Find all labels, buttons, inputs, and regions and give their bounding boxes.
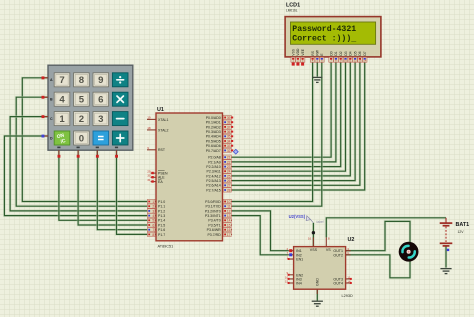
U1 pin 18 XTAL2 bbox=[147, 126, 168, 132]
svg-text:18: 18 bbox=[147, 126, 151, 130]
svg-text:24: 24 bbox=[227, 170, 231, 174]
U1 pin 7 P1.6 bbox=[147, 228, 165, 233]
LCD1 screen text line 1: Password-4321 bbox=[292, 24, 356, 34]
keypad button 9 bbox=[93, 73, 109, 87]
wire U1 P3.3 to U2 IN2 bbox=[232, 216, 289, 255]
keypad pin column 4 bbox=[115, 150, 118, 158]
U1 pin 37 P0.2/AD2 bbox=[206, 125, 233, 130]
svg-text:1: 1 bbox=[59, 114, 65, 125]
transistor-driver U2 body (L293D) bbox=[294, 247, 346, 290]
keypad pin row B bbox=[42, 96, 49, 99]
svg-text:13: 13 bbox=[227, 214, 231, 218]
svg-text:22: 22 bbox=[227, 160, 231, 164]
svg-text:P1.7: P1.7 bbox=[158, 233, 165, 237]
wire U1 P2.7 to LCD D7 bbox=[232, 63, 365, 190]
svg-text:D7: D7 bbox=[363, 51, 367, 55]
svg-text:U2: U2 bbox=[348, 237, 355, 243]
U1 pin 25 P2.4/A12 bbox=[206, 174, 232, 179]
svg-text:11: 11 bbox=[227, 205, 231, 209]
keypad button ON/C bbox=[54, 131, 70, 145]
svg-text:35: 35 bbox=[227, 135, 231, 139]
svg-text:U2(VSS): U2(VSS) bbox=[289, 214, 306, 219]
svg-text:D5: D5 bbox=[353, 51, 357, 55]
svg-text:6: 6 bbox=[152, 223, 154, 227]
U1 value label AT89C51 bbox=[158, 244, 174, 248]
keypad pin row C bbox=[42, 115, 49, 118]
svg-text:D1: D1 bbox=[334, 51, 338, 55]
svg-text:VS: VS bbox=[326, 248, 331, 252]
U1 pin 9 RST bbox=[147, 146, 166, 152]
LCD1 pin 2 VDD bbox=[296, 48, 301, 66]
U2 pin 16 VSS bbox=[308, 237, 318, 252]
svg-text:P3.2/INT0: P3.2/INT0 bbox=[205, 209, 221, 213]
svg-text:P2.2/A10: P2.2/A10 bbox=[206, 165, 220, 169]
svg-text:LM016L: LM016L bbox=[286, 8, 298, 12]
svg-text:D3: D3 bbox=[344, 51, 348, 55]
keypad pin row D bbox=[42, 135, 49, 138]
svg-text:2: 2 bbox=[152, 205, 154, 209]
U1 pin 13 P3.3/INT1 bbox=[205, 213, 232, 218]
svg-text:OUT2: OUT2 bbox=[333, 253, 343, 257]
svg-text:D: D bbox=[50, 136, 53, 140]
svg-text:5: 5 bbox=[152, 219, 154, 223]
U1 pin 30 ALE bbox=[147, 174, 165, 180]
svg-text:P1.2: P1.2 bbox=[158, 209, 165, 213]
svg-text:9: 9 bbox=[98, 75, 103, 86]
svg-text:D6: D6 bbox=[358, 51, 362, 55]
ground below LCD RW bbox=[312, 77, 322, 82]
keypad row label D bbox=[50, 136, 53, 140]
U1 pin 17 P3.7/RD bbox=[207, 232, 232, 237]
keypad row label B bbox=[50, 98, 53, 102]
svg-text:26: 26 bbox=[227, 179, 231, 183]
svg-text:P3.6/WR: P3.6/WR bbox=[207, 228, 221, 232]
U1 pin 2 P1.1 bbox=[147, 204, 165, 209]
svg-text:36: 36 bbox=[227, 130, 231, 134]
U1 pin 24 P2.3/A11 bbox=[207, 169, 232, 174]
svg-text:Password-4321: Password-4321 bbox=[292, 24, 356, 34]
keypad column label 3 bbox=[96, 147, 99, 149]
wire U1 P2.3 to LCD D3 bbox=[232, 63, 346, 172]
U1 pin 15 P3.5/T1 bbox=[208, 223, 232, 228]
svg-text:4: 4 bbox=[59, 95, 65, 106]
svg-text:P3.7/RD: P3.7/RD bbox=[207, 233, 221, 237]
keypad pin column 3 bbox=[96, 150, 99, 158]
ground below BAT1 bbox=[440, 269, 451, 274]
svg-text:17: 17 bbox=[227, 233, 231, 237]
keypad button 2 bbox=[74, 112, 90, 126]
wire U1 P2.2 to LCD D2 bbox=[232, 63, 341, 167]
U1 pin 35 P0.4/AD4 bbox=[206, 134, 233, 139]
svg-text:P2.5/A13: P2.5/A13 bbox=[206, 179, 220, 183]
svg-text:P1.5: P1.5 bbox=[158, 223, 165, 227]
keypad button 5 bbox=[74, 92, 90, 106]
svg-text:31: 31 bbox=[147, 178, 151, 182]
svg-text:C: C bbox=[50, 117, 53, 121]
svg-text:9: 9 bbox=[147, 146, 149, 150]
U1 pin 33 P0.6/AD6 bbox=[206, 144, 233, 149]
keypad button 8 bbox=[74, 73, 90, 87]
svg-text:XTAL1: XTAL1 bbox=[158, 118, 168, 122]
svg-text:25: 25 bbox=[227, 174, 231, 178]
U1 pin 23 P2.2/A10 bbox=[206, 164, 232, 169]
BAT1 reference label bbox=[456, 222, 470, 228]
svg-text:P3.1/TXD: P3.1/TXD bbox=[206, 205, 222, 209]
U1 pin 27 P2.6/A14 bbox=[206, 183, 232, 188]
wire U2 GND to ground bbox=[316, 289, 319, 300]
U1 pin 31 EA bbox=[147, 178, 163, 184]
svg-text:3: 3 bbox=[98, 114, 103, 125]
wire U2(VSS) terminal to U2 VSS pin bbox=[312, 223, 315, 247]
svg-text:RST: RST bbox=[158, 148, 166, 152]
svg-text:Correct :)))_: Correct :)))_ bbox=[292, 33, 356, 43]
wire keypad row A to U1 P1.0 bbox=[22, 78, 147, 202]
U1 pin 11 P3.1/TXD bbox=[206, 204, 232, 209]
keypad column label 4 bbox=[115, 147, 118, 149]
U2 pin 2 IN1 bbox=[287, 247, 302, 253]
U1 pin 21 P2.0/A8 bbox=[208, 155, 232, 160]
svg-text:7: 7 bbox=[59, 75, 64, 86]
U1 pin 34 P0.5/AD5 bbox=[206, 139, 233, 144]
keypad button 6 bbox=[93, 92, 109, 106]
U2 pin 10 IN3 bbox=[285, 275, 302, 281]
keypad row label A bbox=[50, 78, 53, 82]
U1 pin 1 P1.0 bbox=[147, 199, 165, 204]
LCD1 value label LM016L bbox=[286, 8, 298, 12]
U1 pin 12 P3.2/INT0 bbox=[205, 209, 232, 214]
svg-text:16: 16 bbox=[227, 228, 231, 232]
U2 pin 8 VS bbox=[326, 237, 331, 252]
LCD1 pin 7 D0 bbox=[329, 51, 334, 62]
U1 pin 10 P3.0/RXD bbox=[205, 199, 232, 204]
svg-text:37: 37 bbox=[227, 125, 231, 129]
LCD1 pin 9 D2 bbox=[338, 51, 343, 62]
U1 pin 38 P0.1/AD1 bbox=[206, 120, 233, 125]
LCD1 pin 14 D7 bbox=[362, 51, 367, 62]
svg-text:P0.7/AD7: P0.7/AD7 bbox=[206, 149, 221, 153]
svg-text:16: 16 bbox=[308, 237, 312, 241]
svg-text:27: 27 bbox=[227, 184, 231, 188]
svg-text:P0.6/AD6: P0.6/AD6 bbox=[206, 144, 221, 148]
svg-text:15: 15 bbox=[227, 223, 231, 227]
keypad row label C bbox=[50, 117, 53, 121]
svg-text:XTAL2: XTAL2 bbox=[158, 128, 168, 132]
LCD1 pin 6 E bbox=[320, 53, 325, 63]
svg-text:P3.5/T1: P3.5/T1 bbox=[208, 223, 220, 227]
svg-text:34: 34 bbox=[227, 139, 231, 143]
svg-text:12V: 12V bbox=[458, 230, 465, 234]
svg-text:28: 28 bbox=[227, 188, 231, 192]
U1 reference label bbox=[157, 107, 164, 113]
U2 GND pin bbox=[316, 278, 320, 294]
svg-text:1: 1 bbox=[152, 200, 154, 204]
keypad button = bbox=[93, 131, 109, 145]
junction on U2 VSS wire bbox=[312, 231, 315, 234]
keypad button plus bbox=[112, 131, 128, 145]
wire LCD RW to ground bbox=[316, 63, 319, 77]
svg-text:P0.2/AD2: P0.2/AD2 bbox=[206, 125, 221, 129]
U1 pin 16 P3.6/WR bbox=[207, 228, 232, 233]
LCD1 pin 11 D4 bbox=[348, 51, 353, 62]
svg-text:7: 7 bbox=[152, 228, 154, 232]
keypad button 1 bbox=[54, 112, 70, 126]
svg-text:0: 0 bbox=[79, 133, 84, 144]
keypad body bbox=[48, 65, 133, 150]
wire motor through bbox=[409, 243, 412, 260]
svg-text:B: B bbox=[50, 98, 53, 102]
svg-text:P2.6/A14: P2.6/A14 bbox=[206, 184, 220, 188]
svg-text:VSS: VSS bbox=[292, 48, 296, 55]
wire keypad column 3 to U1 P1.6 bbox=[97, 150, 147, 230]
keypad button divide bbox=[112, 73, 128, 87]
svg-text:8: 8 bbox=[79, 75, 85, 86]
U2 pin 1 EN1 bbox=[287, 255, 304, 261]
U2 pin 7 IN2 bbox=[287, 251, 302, 257]
BAT1 value label 12V bbox=[458, 230, 465, 234]
U1 pin 29 PSEN bbox=[147, 169, 168, 175]
svg-text:RW: RW bbox=[316, 49, 320, 55]
keypad button minus bbox=[112, 112, 128, 126]
LCD1 pin 1 VSS bbox=[291, 48, 296, 65]
op-amp U1 body (AT89C51 microcontroller) bbox=[156, 113, 223, 241]
LCD1 pin 5 RW bbox=[315, 49, 320, 62]
svg-text:39: 39 bbox=[227, 116, 231, 120]
wire U2 OUT2 to motor bottom bbox=[346, 255, 410, 278]
wire U1 P2.4 to LCD D4 bbox=[232, 63, 350, 176]
U2 pin 14 OUT4 bbox=[333, 279, 351, 285]
svg-text:D0: D0 bbox=[329, 51, 333, 55]
U1 pin 22 P2.1/A9 bbox=[208, 160, 232, 165]
LCD1 pin 10 D3 bbox=[343, 51, 348, 62]
svg-text:AT89C51: AT89C51 bbox=[158, 244, 174, 248]
svg-text:P3.3/INT1: P3.3/INT1 bbox=[205, 214, 221, 218]
LCD1 pin 8 D1 bbox=[334, 51, 339, 62]
LCD1 body bbox=[285, 17, 381, 57]
keypad pin row A bbox=[42, 76, 49, 79]
svg-text:D2: D2 bbox=[339, 51, 343, 55]
svg-text:L293D: L293D bbox=[342, 294, 353, 298]
svg-text:P3.4/T0: P3.4/T0 bbox=[208, 219, 220, 223]
wire keypad column 4 to U1 P1.7 bbox=[117, 150, 148, 234]
U2 value label L293D bbox=[342, 294, 353, 298]
LCD1 pin 3 VEE bbox=[300, 48, 305, 65]
svg-text:33: 33 bbox=[227, 144, 231, 148]
U1 pin 39 P0.0/AD0 bbox=[206, 115, 233, 120]
svg-text:EN1: EN1 bbox=[296, 258, 303, 262]
svg-text:19: 19 bbox=[147, 116, 151, 120]
wire U1 P2.1 to LCD D1 bbox=[232, 63, 336, 162]
wire BAT1 negative to ground bbox=[445, 246, 448, 268]
U1 pin 14 P3.4/T0 bbox=[208, 218, 232, 223]
svg-text:A: A bbox=[50, 78, 53, 82]
keypad button 0 bbox=[74, 131, 90, 145]
wire keypad row C to U1 P1.2 bbox=[10, 117, 148, 211]
svg-text:P1.0: P1.0 bbox=[158, 200, 165, 204]
keypad button 4 bbox=[54, 92, 70, 106]
wire U1 P3.2 to U2 IN1 bbox=[232, 211, 289, 251]
wire keypad column 2 to U1 P1.5 bbox=[78, 150, 148, 225]
svg-text:IN4: IN4 bbox=[296, 282, 302, 286]
wire U2 OUT1 to motor top bbox=[346, 221, 410, 250]
svg-text:21: 21 bbox=[227, 156, 231, 160]
LCD1 screen text line 2: Correct :)))_ bbox=[292, 33, 356, 43]
svg-text:GND: GND bbox=[316, 278, 320, 286]
svg-text:6: 6 bbox=[98, 95, 103, 106]
svg-text:P1.6: P1.6 bbox=[158, 228, 165, 232]
svg-text:32: 32 bbox=[227, 149, 231, 153]
U2 pin 3 OUT1 bbox=[333, 247, 350, 253]
U2 pin 6 OUT2 bbox=[333, 251, 350, 257]
svg-text:D4: D4 bbox=[349, 51, 353, 55]
wire U2 VS to BAT1 positive bbox=[326, 218, 446, 238]
svg-text:P2.7/A15: P2.7/A15 bbox=[206, 188, 220, 192]
svg-text:EA: EA bbox=[158, 180, 163, 184]
svg-text:BAT1: BAT1 bbox=[456, 222, 470, 228]
U1 pin 26 P2.5/A13 bbox=[206, 178, 232, 183]
svg-text:4: 4 bbox=[152, 214, 154, 218]
wire keypad row D to U1 P1.3 bbox=[4, 136, 147, 216]
U1 pin 36 P0.3/AD3 bbox=[206, 129, 233, 134]
svg-text:P0.1/AD1: P0.1/AD1 bbox=[206, 121, 221, 125]
svg-text:P1.1: P1.1 bbox=[158, 205, 165, 209]
svg-text:P1.3: P1.3 bbox=[158, 214, 165, 218]
keypad button multiply bbox=[112, 92, 128, 106]
svg-text:23: 23 bbox=[227, 165, 231, 169]
svg-text:3: 3 bbox=[152, 209, 154, 213]
svg-text:P1.4: P1.4 bbox=[158, 219, 165, 223]
svg-text:P3.0/RXD: P3.0/RXD bbox=[205, 200, 221, 204]
keypad button 3 bbox=[93, 112, 109, 126]
svg-text:label: label bbox=[316, 220, 323, 224]
svg-text:10: 10 bbox=[227, 200, 231, 204]
wire U1 P2.6 to LCD D6 bbox=[232, 63, 360, 186]
U2 pin 9 EN2 bbox=[287, 271, 304, 277]
U1 pin 3 P1.2 bbox=[147, 209, 165, 214]
U1 pin 6 P1.5 bbox=[147, 223, 165, 228]
svg-text:P2.1/A9: P2.1/A9 bbox=[208, 160, 221, 164]
LCD1 pin 4 RS bbox=[310, 50, 315, 62]
LCD1 reference label bbox=[286, 3, 300, 9]
U2 pin 15 IN4 bbox=[285, 279, 302, 285]
U1 pin 5 P1.4 bbox=[147, 218, 165, 223]
svg-text:RS: RS bbox=[311, 50, 315, 55]
svg-text:12: 12 bbox=[227, 209, 231, 213]
LCD1 screen bbox=[291, 22, 376, 44]
U1 pin 19 XTAL1 bbox=[147, 116, 168, 122]
wire U1 P3.0 to LCD RS bbox=[232, 63, 313, 202]
wire U1 P3.1 to LCD E bbox=[232, 63, 322, 207]
svg-text:P2.4/A12: P2.4/A12 bbox=[206, 174, 220, 178]
U2 reference label bbox=[348, 237, 355, 243]
motor (DC motor) bbox=[399, 242, 419, 262]
svg-text:2: 2 bbox=[79, 114, 84, 125]
svg-text:OUT4: OUT4 bbox=[333, 282, 343, 286]
svg-text:38: 38 bbox=[227, 121, 231, 125]
wire U1 P2.5 to LCD D5 bbox=[232, 63, 355, 181]
wire keypad column 1 to U1 P1.4 bbox=[59, 150, 148, 220]
svg-text:VDD: VDD bbox=[296, 48, 300, 56]
svg-text:P0.4/AD4: P0.4/AD4 bbox=[206, 135, 221, 139]
keypad column label 2 bbox=[77, 147, 80, 149]
U2 pin 11 OUT3 bbox=[333, 275, 351, 281]
U1 pin 8 P1.7 bbox=[147, 232, 165, 237]
wire keypad row B to U1 P1.1 bbox=[16, 97, 147, 206]
svg-text:P0.3/AD3: P0.3/AD3 bbox=[206, 130, 221, 134]
svg-text:P2.0/A8: P2.0/A8 bbox=[208, 156, 221, 160]
keypad pin column 2 bbox=[77, 150, 80, 158]
wire U1 P2.0 to LCD D0 bbox=[232, 63, 331, 158]
svg-text:U1: U1 bbox=[157, 107, 164, 113]
keypad column label 1 bbox=[57, 147, 60, 149]
node U2(VSS) power terminal bbox=[289, 214, 324, 224]
svg-text:5: 5 bbox=[79, 95, 85, 106]
U1 pin 28 P2.7/A15 bbox=[206, 188, 232, 193]
keypad button 7 bbox=[54, 73, 70, 87]
ground below U2 GND bbox=[312, 301, 323, 306]
keypad pin column 1 bbox=[58, 150, 61, 158]
U1 pin 4 P1.3 bbox=[147, 213, 165, 218]
svg-text:VSS: VSS bbox=[310, 248, 318, 252]
svg-text:P0.5/AD5: P0.5/AD5 bbox=[206, 139, 221, 143]
cursor diamond marker bbox=[233, 149, 238, 154]
svg-text:14: 14 bbox=[227, 219, 231, 223]
LCD1 pin 12 D5 bbox=[353, 51, 358, 62]
battery BAT1 bbox=[440, 218, 453, 251]
LCD1 pin 13 D6 bbox=[358, 51, 363, 62]
svg-text:P0.0/AD0: P0.0/AD0 bbox=[206, 116, 221, 120]
svg-text:VEE: VEE bbox=[301, 48, 305, 55]
svg-text:P2.3/A11: P2.3/A11 bbox=[207, 170, 221, 174]
svg-text:8: 8 bbox=[152, 233, 154, 237]
U1 pin 32 P0.7/AD7 bbox=[206, 148, 233, 153]
